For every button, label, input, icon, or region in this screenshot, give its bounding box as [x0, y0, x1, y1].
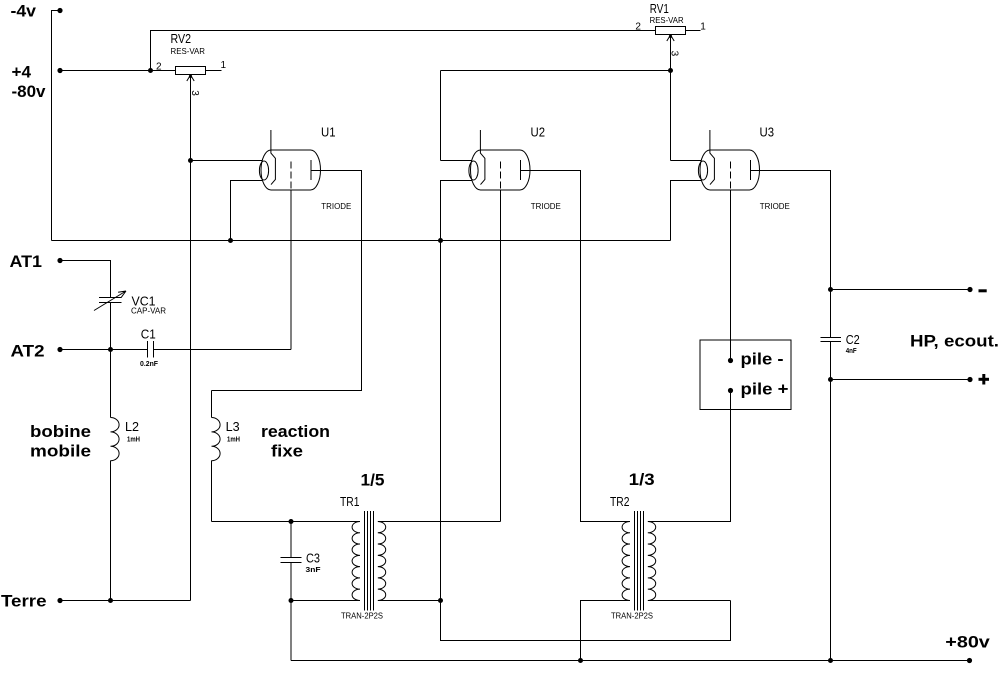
potentiometer RV1	[635, 2, 706, 57]
svg-text:pile -: pile -	[741, 350, 784, 369]
svg-text:+80v: +80v	[945, 633, 990, 652]
wire U2 heater pin2	[441, 181, 473, 241]
potentiometer RV2	[156, 32, 227, 96]
svg-text:L2: L2	[125, 420, 139, 434]
svg-text:Terre: Terre	[1, 592, 47, 611]
triode U2	[469, 126, 561, 212]
wire	[60, 261, 111, 298]
svg-text:TR2: TR2	[610, 495, 630, 509]
svg-text:C3: C3	[306, 552, 320, 566]
svg-text:U2: U2	[531, 126, 546, 140]
wire HP plus	[828, 374, 989, 385]
svg-text:pile +: pile +	[741, 380, 789, 399]
wire U3 grid to pile	[730, 190, 732, 361]
label bobine mobile	[30, 422, 91, 461]
wire U2 heater pin1	[441, 160, 473, 162]
svg-text:1mH: 1mH	[227, 437, 240, 444]
svg-text:HP, ecout.: HP, ecout.	[910, 332, 999, 351]
wire U3 heater pin2	[671, 181, 702, 241]
svg-text:TR1: TR1	[340, 495, 360, 509]
RV2 pin 1 wire	[206, 70, 222, 72]
svg-text:mobile: mobile	[30, 442, 91, 461]
wire pile to TR2 secondary top	[648, 391, 731, 522]
wire RV1 wiper	[668, 35, 673, 73]
node +4 / -80v	[12, 63, 63, 102]
svg-text:TRIODE: TRIODE	[531, 202, 561, 211]
label HP, ecout.	[910, 332, 999, 351]
svg-text:RV1: RV1	[650, 2, 669, 16]
wire TR2 primary bottom	[578, 601, 630, 664]
svg-text:CAP-VAR: CAP-VAR	[131, 307, 166, 316]
svg-text:1: 1	[221, 60, 227, 71]
wire heater bus U2/U3	[441, 71, 671, 161]
wire	[52, 240, 671, 242]
svg-text:-80v: -80v	[12, 82, 47, 101]
transformer TR1	[340, 495, 386, 621]
svg-text:TRAN-2P2S: TRAN-2P2S	[611, 612, 653, 621]
label 1/3	[629, 470, 655, 489]
RV1 wiper arrow	[667, 35, 674, 41]
node AT1	[10, 252, 63, 271]
wire	[151, 31, 656, 71]
svg-text:2: 2	[156, 62, 162, 73]
wire +80v rail	[291, 601, 970, 661]
wire Terre	[60, 598, 191, 603]
wire U2 grid	[500, 190, 502, 522]
wire TR1 secondary bottom	[378, 598, 443, 603]
svg-text:1: 1	[700, 22, 706, 33]
transformer TR2	[610, 495, 656, 621]
svg-text:4nF: 4nF	[846, 348, 858, 355]
variable capacitor VC1	[94, 291, 166, 316]
wire	[60, 68, 176, 73]
triode U3	[698, 126, 789, 212]
wire U3 heater pin1	[671, 160, 702, 162]
RV2 wiper arrow	[187, 75, 194, 81]
wire U3 anode to +80v rail	[828, 380, 833, 664]
wire TR1 secondary top to U2 grid	[378, 521, 501, 523]
wire C1 to U1 grid	[154, 349, 292, 351]
node -4v	[11, 2, 63, 21]
svg-text:2: 2	[635, 22, 641, 33]
node Terre	[1, 592, 63, 611]
svg-text:AT2: AT2	[11, 342, 45, 361]
wire U2 anode to TR2 primary top	[521, 171, 631, 522]
svg-text:reaction: reaction	[261, 422, 330, 441]
battery box pile	[700, 340, 791, 410]
wire TR1 primary bottom	[289, 598, 361, 603]
wire U1 heater pin1	[191, 160, 263, 162]
wire U3 anode	[751, 171, 834, 293]
svg-text:U1: U1	[321, 126, 336, 140]
node AT2	[11, 342, 63, 361]
svg-text:U3: U3	[760, 126, 775, 140]
svg-text:RES-VAR: RES-VAR	[171, 47, 206, 56]
RV1 pin 1 wire	[686, 30, 701, 32]
capacitor C3	[281, 522, 322, 601]
svg-text:C2: C2	[846, 333, 860, 347]
svg-text:L3: L3	[226, 420, 240, 434]
wire grid-return link	[441, 601, 731, 641]
wire grid-return riser	[438, 238, 443, 601]
svg-text:1mH: 1mH	[127, 437, 140, 444]
wire TR2 secondary bottom	[648, 600, 731, 602]
svg-text:bobine: bobine	[30, 422, 91, 441]
svg-text:fixe: fixe	[271, 442, 303, 461]
label 1/5	[361, 471, 385, 490]
svg-text:0.2nF: 0.2nF	[140, 361, 159, 368]
wire	[60, 347, 148, 352]
svg-text:AT1: AT1	[10, 252, 43, 271]
node +80v	[945, 633, 990, 664]
svg-text:TRIODE: TRIODE	[321, 202, 351, 211]
label reaction fixe	[261, 422, 330, 461]
wire	[110, 303, 112, 350]
inductor L3	[212, 391, 241, 522]
RV2 body	[176, 67, 206, 75]
svg-text:+4: +4	[12, 63, 32, 82]
svg-text:-4v: -4v	[11, 2, 37, 21]
svg-text:TRAN-2P2S: TRAN-2P2S	[341, 612, 383, 621]
svg-text:1/5: 1/5	[361, 471, 385, 490]
svg-text:1/3: 1/3	[629, 470, 655, 489]
wire	[52, 11, 61, 241]
wire L3 to TR1 primary top	[212, 519, 361, 524]
RV1 body	[656, 27, 686, 35]
capacitor C2	[821, 290, 860, 380]
inductor L2	[111, 350, 141, 601]
wire U1 anode to L3	[212, 171, 362, 391]
wire RV2 wiper	[188, 75, 193, 601]
capacitor C1	[140, 328, 159, 369]
svg-text:C1: C1	[141, 328, 156, 342]
triode U1	[259, 126, 351, 212]
wire U1 grid	[290, 190, 292, 350]
svg-text:RES-VAR: RES-VAR	[650, 16, 684, 25]
wire U1 heater pin2	[228, 181, 263, 244]
svg-text:RV2: RV2	[171, 32, 192, 46]
svg-text:3nF: 3nF	[306, 567, 322, 574]
wire HP minus	[831, 287, 987, 292]
svg-text:TRIODE: TRIODE	[760, 202, 790, 211]
